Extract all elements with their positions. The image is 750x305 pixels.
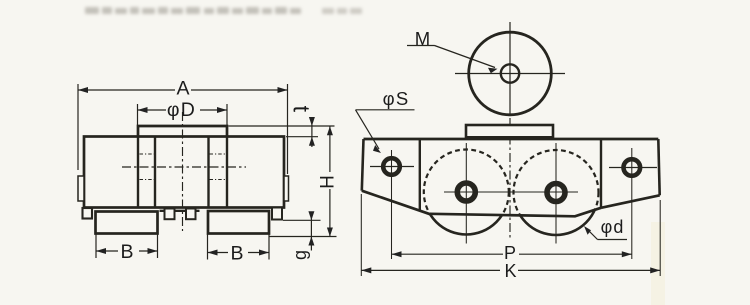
- shared bottom extension line: [270, 236, 337, 238]
- dimension K line: [361, 269, 500, 271]
- wheel 2 dashed circle: [514, 150, 599, 235]
- body outline: [84, 137, 284, 208]
- right plate slant: [601, 195, 660, 208]
- right plate right edge: [658, 139, 659, 195]
- dimension B left line: [96, 250, 118, 252]
- svg-text:φd: φd: [601, 217, 625, 237]
- svg-text:B: B: [230, 243, 243, 265]
- screw hole S left crosshair v / P extension: [391, 150, 393, 259]
- dimension A line: [78, 89, 175, 91]
- dimension P line: [392, 253, 504, 255]
- eye bolt crosshair horizontal: [455, 73, 565, 75]
- hub boss line right: [207, 137, 209, 208]
- wheel 1 solid arc: [424, 150, 509, 235]
- wheel side line right: [226, 137, 228, 208]
- dimension K extension lines: [360, 194, 362, 276]
- eye bolt inner hole: [501, 64, 519, 82]
- screw hole S left: [383, 158, 400, 175]
- svg-text:B: B: [120, 241, 133, 263]
- body left vertical: [419, 139, 421, 210]
- eye bolt crosshair vertical: [509, 22, 511, 115]
- svg-text:P: P: [504, 243, 516, 263]
- dimension B right line: [208, 252, 229, 254]
- paper streak: [651, 222, 665, 305]
- wheel 1 centerline: [465, 143, 467, 244]
- wheel 2 centerline: [555, 143, 557, 244]
- dimension H line: [329, 126, 331, 172]
- hidden axle line bottom-right strip: [210, 179, 227, 181]
- dimension B right extension lines: [207, 235, 209, 260]
- dimension t line: [311, 117, 313, 147]
- dimension phiD extension lines: [137, 104, 139, 125]
- body right vertical: [600, 139, 602, 208]
- label phid leader: [598, 239, 628, 241]
- eye bolt circle M: [469, 32, 552, 115]
- left plate left edge: [362, 139, 364, 191]
- screw hole S right: [624, 159, 641, 176]
- center tab 1: [165, 209, 175, 220]
- right side tab: [284, 176, 289, 201]
- screw hole S left crosshair h: [370, 166, 414, 168]
- wheel cap (phi-D boss): [138, 126, 227, 137]
- wheel 2 solid arc: [514, 150, 599, 235]
- screw hole S right crosshair h: [609, 167, 657, 169]
- hub 1: [457, 183, 475, 201]
- vertical centerline: [182, 112, 184, 231]
- dimension phiD line: [138, 109, 167, 111]
- body bottom edge: [430, 208, 601, 217]
- dimension t extension lines: [229, 125, 335, 127]
- wheel 1 dashed circle: [424, 150, 509, 235]
- hidden axle line top-right strip: [210, 153, 227, 155]
- right bracket: [208, 211, 269, 234]
- left corner hook: [83, 208, 93, 219]
- mounting pad: [466, 125, 553, 137]
- svg-text:M: M: [415, 28, 430, 49]
- axle centerline: [444, 191, 578, 193]
- center axis dashed: [509, 118, 511, 240]
- label M leader: [407, 45, 435, 47]
- right corner hook: [272, 208, 282, 220]
- svg-text:φD: φD: [167, 99, 196, 121]
- faint header text: [0, 0, 750, 30]
- hidden axle line bottom-left strip: [140, 179, 155, 181]
- svg-text:H: H: [315, 175, 336, 189]
- left bracket: [96, 212, 158, 234]
- center lip: [160, 210, 200, 212]
- svg-text:t: t: [288, 106, 314, 113]
- hidden axle line top-left strip: [140, 153, 155, 155]
- label phiS leader: [356, 109, 415, 111]
- svg-text:φS: φS: [383, 88, 410, 109]
- dimension g extension line: [283, 219, 321, 221]
- left side tab: [78, 176, 84, 201]
- svg-text:K: K: [504, 261, 516, 281]
- svg-text:g: g: [290, 250, 310, 260]
- left plate slant: [362, 191, 430, 215]
- body top edge: [364, 138, 659, 141]
- hub boss line left: [154, 137, 156, 208]
- dimension g line: [310, 212, 312, 251]
- screw hole S right crosshair v / P extension: [631, 148, 633, 259]
- dimension A extension lines: [77, 84, 79, 170]
- wheel side line left: [137, 137, 139, 208]
- center tab 2: [186, 209, 196, 220]
- dimension B left extension lines: [95, 235, 97, 259]
- hub 2: [547, 184, 565, 202]
- horizontal centerline: [122, 166, 246, 168]
- svg-text:A: A: [176, 78, 189, 100]
